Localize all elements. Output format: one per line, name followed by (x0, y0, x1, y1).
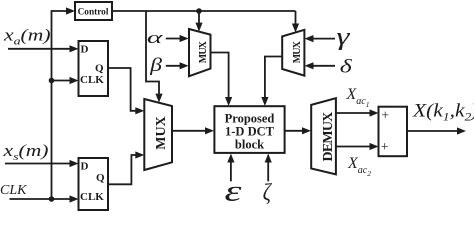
svg-text:Control: Control (78, 8, 109, 18)
wire: clock tap to FF1 CLK (52, 77, 79, 84)
svg-text:xa(m): xa(m) (3, 27, 51, 48)
svg-text:Proposed: Proposed (225, 111, 275, 125)
wire: gamma input (305, 35, 336, 42)
wire: FF2 Q to middle MUX (108, 151, 144, 184)
svg-text:γ: γ (336, 23, 351, 50)
wire: Control output bus (112, 10, 296, 12)
flip-flop FF2 (79, 158, 109, 210)
junction dot on control bus (196, 8, 202, 14)
svg-text:MUX: MUX (198, 40, 209, 63)
demux U4 (311, 98, 336, 174)
wire: zeta input (265, 154, 272, 182)
wire: DCT output to DEMUX (285, 127, 311, 134)
wire: CLK input (10, 195, 79, 202)
wire: DEMUX output 1 (336, 109, 379, 116)
svg-text:MUX: MUX (154, 116, 169, 149)
svg-text:D: D (81, 44, 89, 56)
svg-text:δ: δ (340, 56, 352, 77)
wire: FF1 Q to middle MUX (108, 68, 144, 114)
svg-text:Q: Q (96, 172, 105, 184)
svg-text:α: α (147, 29, 163, 47)
wire: x_s input (5, 160, 79, 167)
svg-text:xs(m): xs(m) (2, 142, 48, 163)
wire: x_a input (8, 45, 79, 52)
wire: final output (407, 127, 466, 134)
wire: select to MUX B (292, 11, 299, 33)
svg-text:block: block (235, 137, 264, 151)
wire: DEMUX output 2 (336, 143, 379, 150)
wire: alpha input (166, 35, 189, 42)
wire: CLK feed up to Control (52, 7, 76, 199)
adder U5 (379, 107, 408, 157)
block: Proposed 1-D DCT (214, 106, 284, 153)
svg-text:+: + (381, 108, 389, 123)
mux U3 (middle MUX) (144, 99, 172, 170)
svg-text:ε: ε (224, 174, 242, 207)
control box (75, 2, 112, 20)
mux U2 (gamma/delta MUX) (282, 30, 304, 76)
wire: epsilon input (227, 154, 234, 182)
svg-text:CLK: CLK (80, 74, 104, 86)
svg-text:CLK: CLK (0, 183, 27, 198)
svg-text:DEMUX: DEMUX (321, 112, 336, 162)
flip-flop FF1 (79, 41, 109, 96)
wire: select to middle MUX (146, 11, 163, 103)
svg-text:Q: Q (95, 63, 104, 75)
svg-text:1-D DCT: 1-D DCT (225, 124, 275, 138)
wire: delta input (305, 62, 336, 69)
svg-text:CLK: CLK (80, 191, 104, 203)
junction dot at FF1 CLK tap (49, 78, 55, 84)
svg-text:D: D (81, 161, 89, 173)
wire: select to MUX A (195, 11, 202, 32)
svg-text:MUX: MUX (292, 40, 303, 63)
junction dot on CLK line (49, 196, 55, 202)
wire: MUX U1 output to DCT (211, 53, 233, 107)
svg-text:β: β (149, 54, 162, 75)
wire: beta input (166, 62, 189, 69)
wire: MUX U3 output to DCT (172, 127, 214, 134)
wire: MUX U2 output to DCT (261, 57, 282, 107)
svg-text:+: + (381, 140, 389, 155)
mux U1 (alpha/beta MUX) (189, 29, 211, 76)
